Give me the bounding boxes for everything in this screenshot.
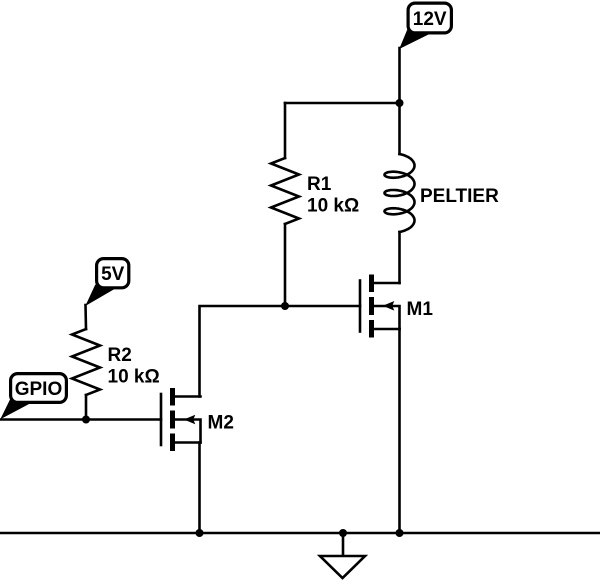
- svg-text:10 kΩ: 10 kΩ: [108, 367, 160, 388]
- transistor M1 source contact bar: [369, 320, 374, 338]
- svg-text:M2: M2: [208, 413, 234, 434]
- wire R1 top: [284, 103, 287, 158]
- svg-text:GPIO: GPIO: [15, 379, 63, 400]
- transistor M2 body contact bar: [170, 411, 175, 429]
- wire gate node to M1 gate: [285, 305, 360, 308]
- wire 5V to R2: [84, 305, 87, 329]
- transistor M2 source contact bar: [170, 434, 175, 452]
- transistor M2 body arrow: [184, 415, 196, 425]
- transistor M2 drain lead: [175, 395, 201, 398]
- inductor PELTIER: [385, 154, 415, 232]
- resistor R2: [72, 329, 100, 395]
- wire R1 bottom to gate node: [284, 224, 287, 306]
- node 12V flag tail: [399, 30, 429, 50]
- wire ground stub: [342, 533, 345, 555]
- node 5V flag box: [97, 259, 129, 288]
- wire GPIO horizontal: [0, 418, 161, 421]
- svg-text:PELTIER: PELTIER: [420, 186, 499, 207]
- wire coil top: [398, 103, 401, 154]
- transistor M1 gate bar: [359, 281, 362, 332]
- junction M1 source on rail: [396, 529, 404, 537]
- transistor M1 body arrow: [383, 301, 395, 311]
- junction top node: [396, 99, 404, 107]
- wire gate node to M2 drain: [200, 306, 286, 397]
- node GPIO flag tail: [0, 400, 30, 420]
- svg-text:R2: R2: [108, 345, 132, 366]
- wire ground rail: [0, 532, 600, 535]
- node 5V flag tail: [85, 285, 114, 307]
- wire 12V down: [398, 48, 401, 103]
- svg-text:R1: R1: [307, 174, 332, 195]
- svg-text:M1: M1: [407, 299, 434, 320]
- transistor M1 source lead: [374, 328, 400, 331]
- svg-text:12V: 12V: [413, 9, 447, 30]
- wire M2 source down to rail: [198, 443, 201, 534]
- junction ground stub: [339, 529, 347, 537]
- transistor M1 body-source tie: [374, 306, 400, 329]
- transistor M2 drain contact bar: [170, 388, 175, 406]
- junction M2 source on rail: [196, 529, 204, 537]
- ground symbol: [320, 556, 365, 578]
- junction GPIO node: [82, 416, 90, 424]
- node GPIO flag box: [11, 374, 67, 403]
- svg-text:10 kΩ: 10 kΩ: [307, 196, 359, 217]
- resistor R1: [271, 158, 299, 224]
- transistor M2 source lead: [175, 441, 201, 444]
- transistor M1 body contact bar: [369, 297, 374, 315]
- node 12V flag box: [408, 3, 451, 33]
- transistor M2 gate bar: [160, 394, 163, 445]
- wire top horizontal: [285, 102, 400, 105]
- transistor M1 drain contact bar: [369, 275, 374, 293]
- junction gate node: [281, 302, 289, 310]
- wire R2 bottom: [85, 395, 88, 420]
- wire coil bottom to M1 drain: [398, 232, 401, 283]
- transistor M1 drain lead: [374, 282, 400, 285]
- svg-text:5V: 5V: [101, 264, 125, 285]
- transistor M2 body-source tie: [175, 420, 201, 443]
- wire M1 source down to rail: [398, 329, 401, 533]
